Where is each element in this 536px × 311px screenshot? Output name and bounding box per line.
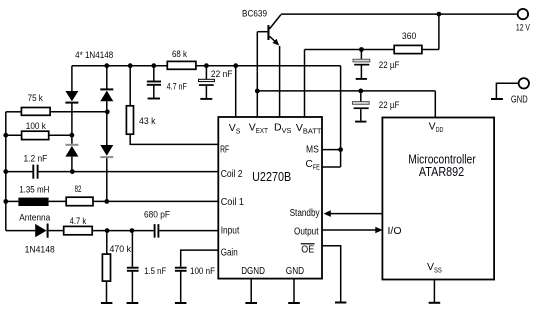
wire coil2 line left of C3	[6, 171, 33, 173]
node junction 100k / left diode column	[70, 133, 75, 138]
svg-text:12 V: 12 V	[516, 23, 531, 34]
svg-text:43 k: 43 k	[139, 116, 156, 127]
op IC U1 U2270B box	[218, 117, 322, 279]
resistor 43k	[126, 106, 133, 134]
inductor L1 1.35mH	[18, 198, 48, 206]
wire 100k left	[6, 134, 22, 136]
ground under GND pin	[288, 302, 300, 304]
wire C2 stems	[205, 66, 207, 98]
node junction C4 top	[359, 47, 364, 52]
resistor 68k	[167, 61, 196, 69]
wire gain line	[181, 250, 219, 267]
node junction MS	[338, 147, 343, 152]
svg-text:GND: GND	[511, 95, 528, 106]
wire V_DD riser to microcontroller	[434, 91, 436, 118]
wire CFE pin stub	[322, 166, 341, 168]
svg-text:470 k: 470 k	[110, 244, 132, 255]
svg-text:4.7 k: 4.7 k	[70, 216, 87, 227]
wire right diode column	[106, 66, 108, 202]
svg-text:Input: Input	[221, 226, 240, 237]
wire C1 stems	[153, 66, 155, 98]
wire 75k right	[50, 111, 107, 113]
resistor 470k	[102, 254, 110, 281]
diode D2 top-right	[100, 89, 113, 101]
ground under OE	[335, 302, 346, 304]
wire coil2 line to IC	[38, 171, 218, 173]
wire V_S pin stem	[235, 66, 237, 117]
svg-text:Gain: Gain	[221, 247, 238, 258]
node junction C5 top	[358, 89, 363, 94]
svg-text:68 k: 68 k	[172, 49, 187, 60]
resistor 4.7k	[64, 226, 92, 234]
ground under DGND	[245, 302, 257, 304]
wire OE line and ground drop	[322, 246, 341, 302]
svg-text:75 k: 75 k	[28, 93, 43, 104]
wire left diode column	[71, 66, 73, 172]
node junction C2 top	[204, 63, 209, 68]
svg-text:82: 82	[75, 184, 82, 195]
wire left rail	[5, 112, 7, 231]
microcontroller U2 ATAR892 box	[382, 118, 494, 280]
svg-text:22 nF: 22 nF	[211, 69, 233, 80]
arrow output into microcontroller	[375, 227, 382, 234]
wire 75k left	[6, 111, 22, 113]
svg-text:I/O: I/O	[388, 226, 402, 237]
wire input line left (antenna)	[6, 230, 35, 232]
wire input line 680pF to IC	[159, 230, 218, 232]
svg-text:GND: GND	[286, 266, 304, 277]
diode D5 1N4148 antenna	[35, 224, 47, 238]
capacitor C6 1.5nF	[127, 268, 139, 271]
arrow standby into U1	[324, 210, 331, 217]
capacitor C5 22uF	[352, 102, 369, 122]
wire C6 1.5nF stems	[131, 231, 133, 303]
svg-text:1.2 nF: 1.2 nF	[24, 153, 48, 164]
diode D3 bottom-left	[65, 145, 78, 157]
node junction left diode column / coil2	[70, 169, 75, 174]
wire GND pin stem	[293, 279, 295, 303]
svg-text:MS: MS	[306, 145, 319, 156]
svg-text:680 pF: 680 pF	[144, 210, 170, 221]
wire V_SS stem	[433, 280, 435, 303]
node junction input line / 1.5nF	[130, 228, 135, 233]
wire D_VS vertical (emitter to pin)	[279, 46, 281, 117]
svg-text:Coil 1: Coil 1	[221, 197, 245, 208]
ground under 470k	[101, 302, 113, 304]
resistor 75k	[21, 108, 50, 116]
svg-text:OE: OE	[301, 244, 314, 255]
capacitor C4 22uF	[353, 59, 370, 79]
wire 43k stems and RF line	[130, 66, 218, 145]
wire coil1 line between L1 and 82	[49, 200, 67, 202]
wire V_BATT horizontal to 360	[305, 49, 395, 51]
svg-text:BC639: BC639	[242, 9, 267, 20]
node junction 43k top	[128, 63, 133, 68]
svg-text:ATAR892: ATAR892	[419, 165, 464, 179]
node junction V_EXT / V_DD net	[255, 89, 260, 94]
terminal 12V	[518, 9, 528, 19]
node junction V_S	[233, 63, 238, 68]
svg-text:DGND: DGND	[241, 266, 265, 277]
wire coil1 line left	[6, 200, 19, 202]
svg-text:360: 360	[402, 31, 416, 42]
wire MS pin stub	[322, 149, 341, 151]
capacitor C8 680pF	[155, 224, 159, 238]
wire C4 stems	[360, 50, 362, 79]
transistor Q1 BC639	[257, 15, 281, 46]
terminal GND	[519, 78, 529, 88]
wire C7 100nF bottom stem	[180, 272, 182, 303]
svg-text:Antenna: Antenna	[19, 213, 51, 224]
wire V_DD net horizontal	[257, 90, 435, 92]
node junction left rail coil1	[3, 199, 8, 204]
svg-text:U2270B: U2270B	[252, 169, 291, 184]
node junction right diode column top	[104, 63, 109, 68]
wire MS riser from 68k net	[340, 66, 342, 167]
node junction left rail 100k	[3, 133, 8, 138]
svg-text:Output: Output	[294, 226, 319, 237]
wire 12V supply top rail	[281, 13, 518, 15]
svg-text:100 nF: 100 nF	[190, 266, 215, 277]
capacitor C2 22nF	[199, 79, 215, 99]
wire V_BATT vertical to pin	[304, 50, 306, 118]
diode D4 bottom-right	[100, 145, 113, 157]
svg-text:Standby: Standby	[290, 208, 320, 219]
ground under 1.5nF	[127, 302, 139, 304]
wire input line 4.7k to 680pF	[92, 230, 153, 232]
svg-text:22 µF: 22 µF	[379, 100, 400, 111]
node junction left rail coil2	[3, 169, 8, 174]
node junction input line / 470k	[105, 228, 110, 233]
svg-text:1.5 nF: 1.5 nF	[144, 266, 166, 277]
ground under V_SS	[429, 302, 441, 304]
node junction right diode column / coil1	[104, 199, 109, 204]
resistor 360	[394, 45, 422, 53]
wire 360 right to riser	[422, 49, 439, 51]
node junction 75k / right diode column	[105, 109, 110, 114]
resistor 100k	[22, 131, 49, 139]
capacitor C1 4.7nF	[147, 82, 161, 99]
svg-text:1.35 mH: 1.35 mH	[19, 185, 49, 196]
ground under 100nF	[175, 302, 187, 304]
diode D1 top-left	[65, 91, 78, 103]
svg-text:4* 1N4148: 4* 1N4148	[75, 50, 113, 61]
svg-text:Coil 2: Coil 2	[221, 169, 243, 180]
wire standby line	[330, 213, 383, 215]
wire riser 360 to 12V rail	[438, 14, 440, 49]
wire 68k / V_S net horizontal	[72, 65, 341, 67]
svg-text:1N4148: 1N4148	[25, 245, 55, 256]
wire input line diode to 4.7k	[49, 230, 64, 232]
wire DGND stem	[250, 279, 252, 303]
svg-text:RF: RF	[220, 145, 229, 156]
svg-text:100 k: 100 k	[26, 121, 46, 132]
wire V_EXT vertical (base to pin)	[256, 32, 258, 117]
wire C5 stems	[360, 91, 362, 121]
capacitor C3 1.2nF	[33, 165, 37, 179]
wire 470k stems	[106, 231, 108, 303]
wire output line	[322, 229, 376, 231]
ground at GND terminal	[491, 98, 503, 100]
capacitor C7 100nF	[175, 268, 187, 271]
svg-text:4.7 nF: 4.7 nF	[167, 81, 187, 92]
wire 100k right	[49, 134, 72, 136]
wire coil1 line to IC	[93, 200, 218, 202]
resistor 82	[66, 197, 93, 206]
svg-text:22 µF: 22 µF	[379, 60, 400, 71]
node junction 12V rail / 360 riser	[437, 12, 442, 17]
node junction C1 top	[151, 63, 156, 68]
wire GND terminal	[496, 83, 519, 98]
